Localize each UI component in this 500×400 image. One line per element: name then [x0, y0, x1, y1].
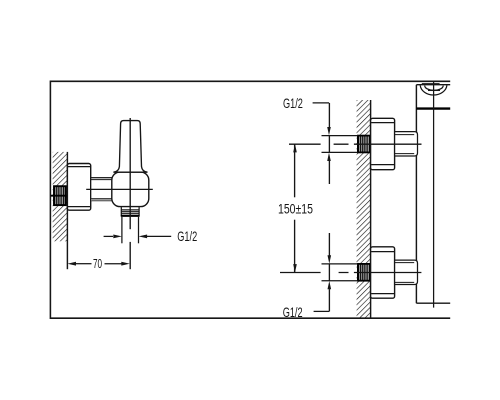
70 dimension: right arrow — [105, 262, 130, 266]
bottom inlet: threaded stub in wall — [358, 264, 370, 281]
bottom inlet: connecting pipe — [395, 260, 418, 284]
svg-text:150±15: 150±15 — [278, 201, 313, 217]
bottom G1/2 dim: lower up arrow with leader — [314, 281, 332, 312]
bottom inlet: escutcheon — [371, 247, 395, 298]
body vertical centerline (right view) — [433, 81, 435, 307]
wall face line left view / 70-dim extension line — [66, 152, 68, 269]
top inlet centerline — [289, 143, 422, 145]
fixture vertical centerline (left view) — [129, 118, 131, 269]
top inlet: threaded stub in wall — [358, 136, 370, 153]
top inlet: escutcheon — [371, 118, 395, 169]
handle (left view) — [113, 121, 147, 173]
outlet threads (left view) — [121, 207, 140, 216]
wall left view (hatched) — [53, 152, 68, 241]
diverter cap inner arc — [425, 86, 444, 91]
bottom G1/2 dim: extension lines — [322, 264, 358, 281]
bottom inlet centerline — [280, 272, 421, 274]
valve body (left view) — [112, 172, 149, 207]
drawing frame border — [50, 81, 450, 318]
knob top line above body edge — [422, 83, 440, 85]
svg-text:G1/2: G1/2 — [283, 97, 303, 111]
G1/2 dimension left view: right arrow and tail to label — [139, 235, 172, 239]
diverter cap outer arc — [420, 85, 447, 95]
top G1/2 dim: lower up arrow — [327, 153, 331, 184]
top G1/2 dim: leader and down arrow — [313, 103, 331, 135]
connecting pipe (left view) — [91, 178, 113, 201]
shower unit body (right view) — [416, 85, 450, 304]
svg-text:G1/2: G1/2 — [177, 231, 197, 245]
150±15 dim: dimension line with outward arrows — [293, 144, 297, 273]
diverter cap chord — [428, 89, 440, 91]
70 dimension: left arrow — [67, 262, 91, 266]
stub centerline (left view) — [50, 195, 69, 197]
thick divider under top cap — [416, 107, 450, 109]
bottom G1/2 dim: upper down arrow — [328, 233, 332, 264]
wall face line right view — [370, 100, 372, 318]
G1/2 dimension left view: left arrow — [104, 235, 122, 239]
bottom G1/2 dim: line between arrows — [328, 264, 330, 281]
svg-text:70: 70 — [93, 257, 102, 271]
top G1/2 dim: line between arrows — [328, 136, 330, 153]
top inlet: connecting pipe — [395, 132, 418, 156]
top G1/2 dim: extension lines — [322, 136, 358, 153]
fixture horizontal centerline (left view) — [86, 188, 153, 190]
threaded stub in wall (left view) — [54, 186, 66, 205]
outlet pipe (left view), edges double as G1/2 extension lines — [122, 217, 139, 243]
wall right view (hatched) — [357, 100, 371, 318]
escutcheon flange (left view) — [67, 164, 90, 211]
